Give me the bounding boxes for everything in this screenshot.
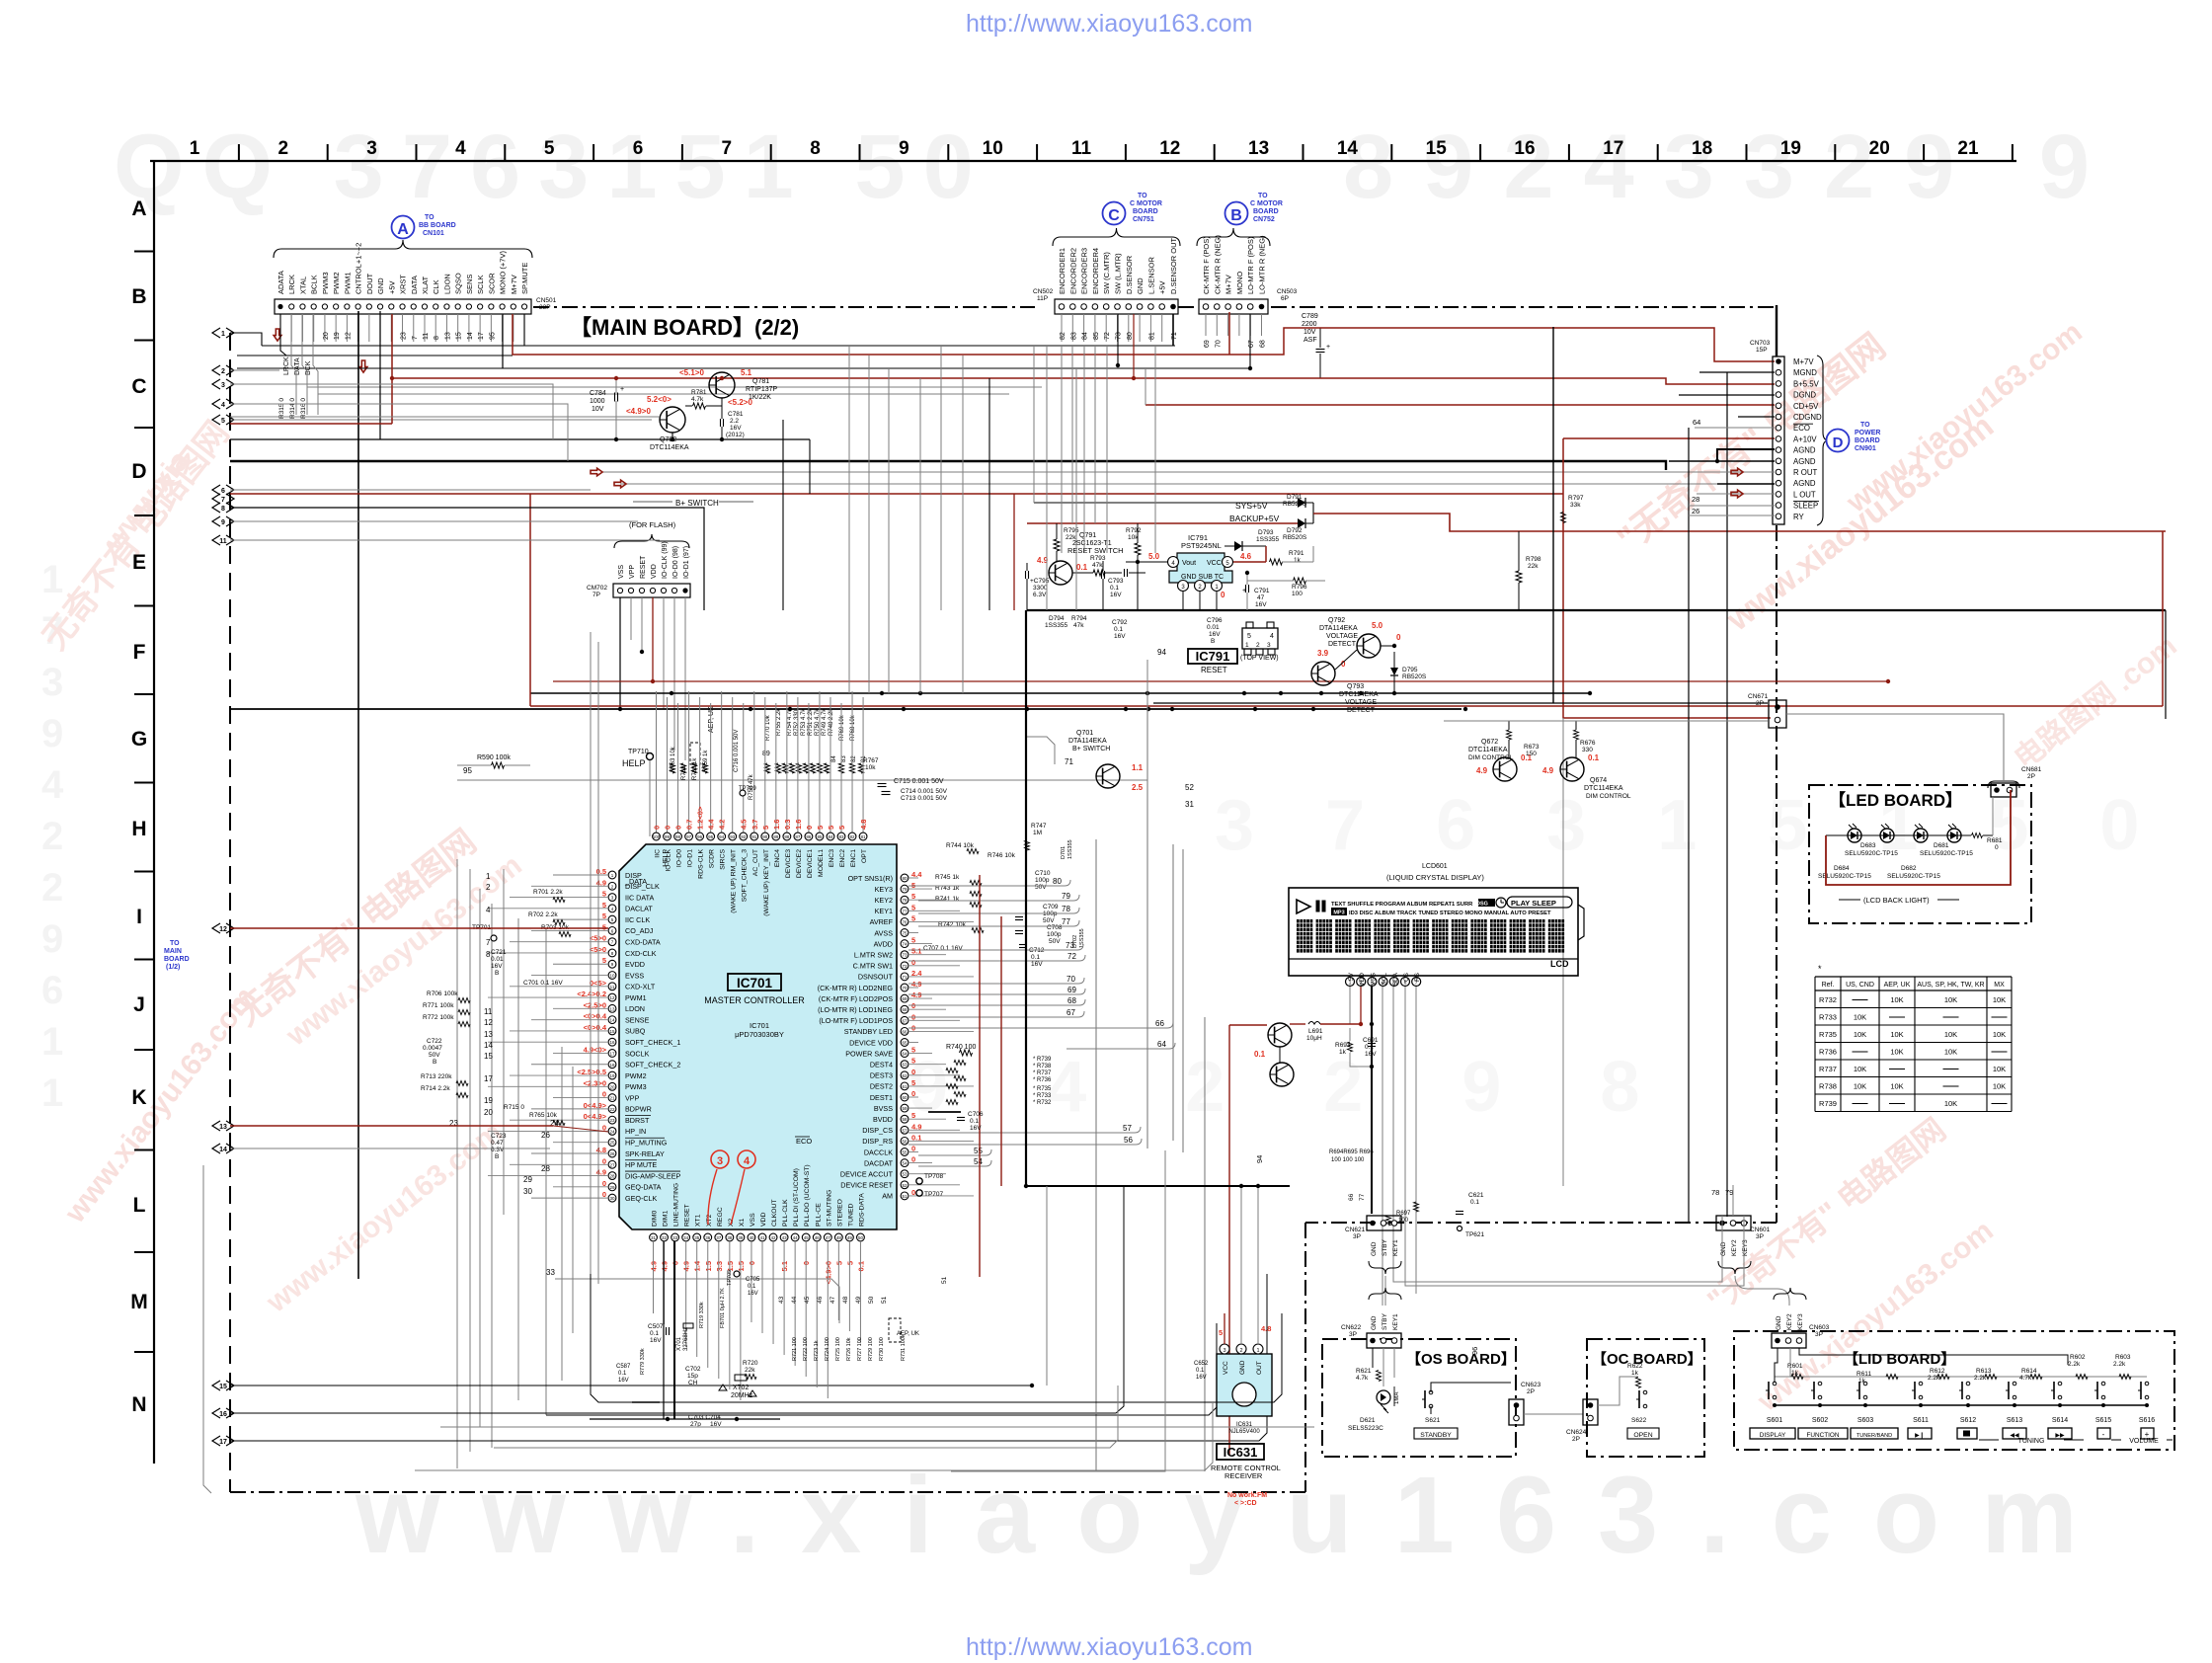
- svg-text:BOARD: BOARD: [1253, 208, 1279, 215]
- svg-text:22: 22: [609, 1107, 615, 1112]
- svg-text:4.8: 4.8: [859, 820, 868, 830]
- svg-text:R792: R792: [1126, 527, 1142, 534]
- svg-text:16V: 16V: [1110, 592, 1122, 598]
- svg-text:41: 41: [759, 1235, 765, 1240]
- svg-text:3300: 3300: [1033, 585, 1048, 592]
- svg-text:MODEL1: MODEL1: [818, 849, 825, 877]
- svg-text:R601: R601: [1787, 1363, 1803, 1370]
- svg-text:67: 67: [1248, 340, 1255, 348]
- connector CN501 23P to BB board: [274, 214, 557, 419]
- diode D793 1SS355: [1224, 529, 1280, 551]
- svg-text:17: 17: [1603, 138, 1623, 159]
- svg-text:B: B: [1230, 207, 1242, 224]
- svg-text:1: 1: [1245, 642, 1249, 649]
- svg-text:CN601: CN601: [1750, 1227, 1771, 1233]
- svg-text:PST9245NL: PST9245NL: [1181, 541, 1222, 550]
- svg-text:A+10V: A+10V: [1793, 435, 1817, 443]
- svg-text:R715 0: R715 0: [504, 1104, 524, 1111]
- svg-text:B: B: [433, 1059, 436, 1066]
- transistor Q792 voltage detect: [1319, 617, 1401, 658]
- border frame ruler: [130, 138, 2016, 1464]
- svg-text:1: 1: [221, 331, 225, 338]
- svg-text:KEY1: KEY1: [1392, 1313, 1399, 1330]
- capacitor C789: [1302, 313, 1330, 378]
- svg-text:* R732: * R732: [1033, 1100, 1052, 1106]
- svg-text:SOFT_CHECK_1: SOFT_CHECK_1: [625, 1038, 680, 1047]
- svg-text:R767: R767: [863, 757, 879, 764]
- svg-text:FUNCTION: FUNCTION: [1806, 1432, 1839, 1439]
- svg-text:10K: 10K: [1854, 1013, 1866, 1022]
- svg-text:EVSS: EVSS: [625, 971, 644, 980]
- svg-text:STBY: STBY: [1382, 1312, 1388, 1330]
- svg-text:1: 1: [41, 1020, 63, 1064]
- svg-text:B: B: [131, 285, 146, 308]
- svg-text:2P: 2P: [1527, 1388, 1535, 1395]
- svg-text:TP710: TP710: [628, 749, 649, 755]
- svg-text:31: 31: [651, 1235, 657, 1240]
- svg-text:13: 13: [484, 1030, 493, 1039]
- svg-text:23P: 23P: [539, 304, 551, 311]
- svg-text:C721: C721: [491, 949, 507, 956]
- svg-text:ECO: ECO: [1793, 424, 1810, 433]
- svg-text:R611: R611: [1856, 1371, 1871, 1378]
- svg-text:OPEN: OPEN: [1633, 1432, 1652, 1439]
- svg-text:89: 89: [773, 834, 779, 839]
- svg-text:50: 50: [858, 1235, 864, 1240]
- svg-text:80: 80: [902, 876, 908, 881]
- red arrows mid: [591, 468, 626, 488]
- svg-text:IIC: IIC: [655, 849, 662, 858]
- svg-text:B+ SWITCH: B+ SWITCH: [675, 499, 719, 508]
- svg-text:50V: 50V: [1035, 884, 1047, 891]
- transistor Q674 dim control: [1444, 721, 1768, 800]
- svg-text:10K: 10K: [1854, 1030, 1866, 1039]
- svg-text:4.5: 4.5: [740, 820, 749, 830]
- svg-text:1: 1: [190, 138, 200, 159]
- svg-text:R722 100: R722 100: [803, 1337, 809, 1361]
- svg-text:16: 16: [219, 1411, 227, 1418]
- svg-text:40: 40: [749, 1235, 754, 1240]
- svg-text:R797: R797: [1568, 495, 1584, 502]
- svg-text:【OC BOARD】: 【OC BOARD】: [1592, 1350, 1702, 1368]
- svg-text:22k: 22k: [745, 1367, 755, 1374]
- svg-text:LO-MTR F (POS): LO-MTR F (POS): [1246, 236, 1255, 294]
- svg-text:16V: 16V: [1196, 1375, 1207, 1381]
- svg-text:9: 9: [41, 712, 63, 755]
- svg-text:DISP_CLK: DISP_CLK: [625, 882, 660, 891]
- svg-text:L691: L691: [1308, 1028, 1323, 1035]
- svg-text:SENS: SENS: [465, 275, 474, 294]
- svg-text:10: 10: [609, 974, 615, 979]
- svg-text:SDA: SDA: [1392, 972, 1399, 986]
- svg-text:1k: 1k: [1294, 557, 1302, 564]
- svg-text:77: 77: [1359, 1193, 1366, 1201]
- svg-text:RESET: RESET: [684, 1204, 691, 1227]
- svg-text:R723 1k: R723 1k: [814, 1340, 820, 1361]
- svg-text:RDS-CLK: RDS-CLK: [698, 849, 705, 879]
- svg-text:3: 3: [717, 1155, 723, 1167]
- svg-text:DEVICE ACCUT: DEVICE ACCUT: [840, 1170, 894, 1179]
- wire CD+5V (dark red): [1145, 404, 1775, 406]
- svg-text:ENCORDER3: ENCORDER3: [1080, 248, 1089, 294]
- svg-text:ENC1: ENC1: [850, 849, 857, 867]
- svg-text:SW (L.MTR): SW (L.MTR): [1114, 253, 1123, 294]
- svg-text:RECEIVER: RECEIVER: [1224, 1471, 1263, 1480]
- svg-text:3P: 3P: [1815, 1331, 1823, 1338]
- svg-text:E: E: [132, 551, 146, 574]
- svg-text:SQSO: SQSO: [454, 273, 463, 294]
- svg-text:2.2k: 2.2k: [2113, 1361, 2126, 1368]
- svg-text:MGND: MGND: [1793, 368, 1817, 377]
- svg-text:AUS, SP, HK, TW, KR: AUS, SP, HK, TW, KR: [1917, 982, 1984, 989]
- svg-text:G: G: [131, 728, 147, 751]
- svg-text:15: 15: [609, 1029, 615, 1034]
- svg-text:DTA114EKA: DTA114EKA: [1068, 738, 1107, 745]
- svg-text:STEREO: STEREO: [836, 1199, 843, 1227]
- svg-text:16V: 16V: [1031, 961, 1043, 968]
- svg-text:GND: GND: [1239, 1360, 1246, 1375]
- svg-text:6.3V: 6.3V: [491, 1147, 505, 1153]
- svg-text:IO-CLK (99): IO-CLK (99): [662, 541, 669, 579]
- svg-text:13: 13: [609, 1006, 615, 1011]
- svg-text:68: 68: [1260, 340, 1267, 348]
- LED D621 / resistor R621 / switch S621: [1348, 1348, 1511, 1439]
- svg-text:5.1: 5.1: [741, 368, 752, 377]
- svg-text:72: 72: [1104, 332, 1111, 340]
- svg-text:KEY2: KEY2: [1731, 1239, 1738, 1256]
- svg-text:IO-D0: IO-D0: [676, 849, 683, 867]
- svg-text:DEVICE1: DEVICE1: [807, 849, 814, 878]
- svg-text:6: 6: [221, 488, 225, 495]
- svg-text:S621: S621: [1425, 1417, 1441, 1424]
- svg-text:0.1: 0.1: [748, 1284, 756, 1290]
- svg-text:CH: CH: [688, 1380, 698, 1386]
- svg-text:IIC CLK: IIC CLK: [625, 915, 650, 924]
- svg-text:ENC3: ENC3: [829, 849, 835, 867]
- svg-text:4.7k: 4.7k: [1356, 1375, 1369, 1382]
- svg-text:6.3V: 6.3V: [1033, 592, 1047, 598]
- red circled 3 and 4 callouts: [708, 1150, 755, 1225]
- svg-text:70: 70: [1215, 340, 1222, 348]
- wires into CN703: [1669, 372, 1775, 515]
- capacitor C793: [1102, 561, 1124, 610]
- svg-text:66: 66: [902, 1029, 908, 1034]
- svg-text:C707 0.1 16V: C707 0.1 16V: [923, 945, 963, 952]
- svg-text:STBY: STBY: [1382, 1238, 1388, 1256]
- svg-text:M+7V: M+7V: [1224, 275, 1233, 294]
- svg-text:LO-MTR R (NEG): LO-MTR R (NEG): [1258, 235, 1267, 294]
- svg-text:5: 5: [1219, 1328, 1223, 1337]
- svg-text:5: 5: [1247, 633, 1251, 640]
- svg-text:78: 78: [1062, 905, 1070, 913]
- svg-text:BDRST: BDRST: [625, 1116, 650, 1125]
- svg-text:CN502: CN502: [1033, 288, 1054, 295]
- svg-text:M: M: [130, 1291, 148, 1313]
- svg-text:19: 19: [334, 332, 341, 340]
- svg-text:D681: D681: [1934, 842, 1949, 849]
- svg-text:DEST1: DEST1: [870, 1093, 893, 1102]
- svg-text:GND: GND: [1776, 1315, 1782, 1330]
- svg-text:2P: 2P: [2027, 773, 2035, 780]
- svg-text:10μH: 10μH: [1306, 1035, 1322, 1042]
- wire +5V net (dark red): [230, 314, 1775, 424]
- svg-text:S615: S615: [2095, 1417, 2111, 1424]
- svg-text:4.8: 4.8: [1261, 1324, 1271, 1333]
- svg-text:0.1: 0.1: [1196, 1368, 1205, 1374]
- svg-text:94: 94: [719, 834, 725, 839]
- svg-text:81: 81: [1148, 332, 1155, 340]
- IC701 left pins 1-30: [577, 867, 680, 1203]
- svg-text:C MOTOR: C MOTOR: [1250, 200, 1283, 207]
- svg-text:BB BOARD: BB BOARD: [419, 222, 456, 229]
- svg-text:C709: C709: [1043, 904, 1059, 911]
- svg-text:95: 95: [708, 834, 714, 839]
- svg-text:R755 2.2k: R755 2.2k: [776, 708, 782, 736]
- wires below LCD: [1350, 987, 1416, 1272]
- svg-text:HP_MUTING: HP_MUTING: [625, 1139, 668, 1148]
- svg-text:52: 52: [1185, 783, 1194, 792]
- svg-text:10K: 10K: [1890, 1082, 1903, 1091]
- svg-text:8: 8: [810, 138, 821, 159]
- svg-text:CD+5V: CD+5V: [1793, 402, 1819, 411]
- svg-text:ENCORDER2: ENCORDER2: [1068, 248, 1077, 294]
- svg-text:23: 23: [401, 332, 408, 340]
- svg-text:QQ 3763151 50: QQ 3763151 50: [114, 117, 991, 217]
- svg-text:78: 78: [1711, 1188, 1719, 1197]
- svg-text:R612: R612: [1930, 1368, 1945, 1375]
- svg-text:15P: 15P: [1756, 347, 1768, 354]
- svg-text:73: 73: [1116, 332, 1123, 340]
- svg-text:MP3: MP3: [1333, 911, 1344, 916]
- svg-text:C789: C789: [1302, 313, 1318, 320]
- svg-text:R724 100: R724 100: [825, 1337, 830, 1361]
- svg-text:R738: R738: [1819, 1082, 1837, 1091]
- labels 66 77 78 79 64 94 96 wires: [1255, 1155, 1733, 1355]
- svg-text:79: 79: [1725, 1188, 1733, 1197]
- svg-text:48: 48: [842, 1296, 849, 1304]
- wire horizontals rows D: [230, 333, 704, 610]
- svg-text:69: 69: [1204, 340, 1211, 348]
- wire 13 dark red: [230, 1126, 608, 1132]
- svg-text:C716 0.001 50V: C716 0.001 50V: [734, 730, 740, 772]
- svg-text:【OS BOARD】: 【OS BOARD】: [1406, 1350, 1516, 1368]
- capacitor C784: [230, 376, 724, 441]
- wire CN502 GND/MONO drops: [1116, 314, 1252, 370]
- svg-text:5: 5: [837, 826, 846, 830]
- svg-text:2200: 2200: [1302, 321, 1317, 328]
- svg-text:89243329 9: 89243329 9: [1343, 117, 2119, 217]
- svg-text:HP_IN: HP_IN: [625, 1127, 646, 1136]
- svg-text:+: +: [1326, 344, 1330, 351]
- svg-text:SELU5920C-TP15: SELU5920C-TP15: [1845, 850, 1898, 857]
- svg-text:R748 2.2k: R748 2.2k: [829, 708, 834, 736]
- svg-text:CN603: CN603: [1809, 1324, 1830, 1331]
- svg-text:AC_CUT: AC_CUT: [752, 849, 759, 876]
- svg-text:ASF: ASF: [1303, 337, 1317, 344]
- svg-text:【LED BOARD】: 【LED BOARD】: [1829, 790, 1962, 810]
- LCD601 liquid crystal display: [1289, 863, 1584, 987]
- svg-text:DISP_CS: DISP_CS: [862, 1126, 893, 1135]
- svg-text:48: 48: [836, 1235, 842, 1240]
- svg-text:XT2: XT2: [706, 1214, 713, 1227]
- svg-text:C715 0.001 50V: C715 0.001 50V: [894, 778, 944, 785]
- svg-text:IC701: IC701: [737, 976, 773, 990]
- svg-text:R752 330: R752 330: [794, 709, 800, 736]
- svg-text:19: 19: [609, 1073, 615, 1078]
- svg-text:43: 43: [778, 1296, 785, 1304]
- svg-text:7: 7: [412, 336, 419, 340]
- svg-text:62: 62: [902, 1073, 908, 1078]
- svg-text:R742 10k: R742 10k: [938, 921, 967, 928]
- LED board red wire: [1826, 790, 2011, 885]
- LED board outline: [1809, 785, 2031, 923]
- svg-text:C793: C793: [1108, 578, 1124, 585]
- svg-text:S603: S603: [1857, 1417, 1873, 1424]
- svg-text:47: 47: [826, 1235, 831, 1240]
- svg-text:84: 84: [1082, 332, 1089, 340]
- svg-text:70: 70: [1066, 975, 1075, 984]
- capacitor C795: [1026, 563, 1050, 610]
- svg-text:56: 56: [902, 1139, 908, 1144]
- svg-text:9: 9: [899, 138, 909, 159]
- svg-text:3P: 3P: [1349, 1331, 1357, 1338]
- svg-text:SP.MUTE: SP.MUTE: [520, 263, 529, 294]
- test points TP708 TP707: [916, 1173, 944, 1198]
- svg-text:22k: 22k: [1066, 534, 1076, 541]
- svg-text:12: 12: [609, 995, 615, 1000]
- resistor R792 10k: [1126, 523, 1148, 610]
- svg-text:IC791: IC791: [1196, 649, 1230, 664]
- wire 14: [230, 1148, 550, 1149]
- svg-text:< >:CD: < >:CD: [1234, 1500, 1257, 1507]
- svg-text:72: 72: [1067, 952, 1076, 961]
- svg-text:46: 46: [817, 1296, 824, 1304]
- svg-text:73: 73: [902, 953, 908, 958]
- svg-text:5V: 5V: [1348, 972, 1355, 981]
- svg-text:64: 64: [1693, 418, 1700, 427]
- svg-text:BVSS: BVSS: [874, 1104, 893, 1113]
- svg-text:0: 0: [653, 826, 662, 830]
- svg-text:B: B: [495, 1153, 499, 1160]
- labels 52 51 right of Q701: [1185, 783, 1194, 809]
- svg-text:SPK-RELAY: SPK-RELAY: [625, 1149, 665, 1158]
- transistor Q781: [679, 368, 777, 401]
- svg-text:REGC: REGC: [717, 1207, 724, 1227]
- svg-text:TP708: TP708: [924, 1173, 944, 1180]
- svg-text:R769 10k: R769 10k: [839, 714, 845, 741]
- diodes D794 R794: [1045, 615, 1087, 629]
- svg-text:TO: TO: [1138, 193, 1147, 199]
- svg-text:VSS: VSS: [618, 565, 625, 579]
- svg-text:3: 3: [366, 138, 377, 159]
- svg-text:CN624: CN624: [1566, 1429, 1587, 1436]
- svg-text:87: 87: [795, 834, 801, 839]
- svg-text:12: 12: [219, 926, 227, 933]
- svg-text:28: 28: [609, 1174, 615, 1179]
- connector CN623 2P: [1509, 1382, 1583, 1425]
- svg-text:▶❙: ▶❙: [1915, 1432, 1925, 1439]
- svg-text:RESET SWITCH: RESET SWITCH: [1067, 546, 1124, 555]
- svg-text:10K: 10K: [1944, 1030, 1957, 1039]
- svg-text:20: 20: [609, 1084, 615, 1089]
- svg-text:S612: S612: [1960, 1417, 1976, 1424]
- IC IC791 PST9245NL: [1137, 533, 1266, 610]
- wire M+7V net (dark red): [513, 312, 1775, 361]
- svg-text:TUNED: TUNED: [847, 1203, 854, 1227]
- svg-text:1.1: 1.1: [1132, 763, 1144, 772]
- svg-text:R753 4.7k: R753 4.7k: [801, 708, 807, 736]
- svg-text:IO-CLK: IO-CLK: [666, 849, 672, 872]
- test point TP621 / capacitor C621: [1456, 1192, 1485, 1238]
- svg-text:Ref.: Ref.: [1822, 982, 1835, 989]
- svg-text:GND: GND: [1371, 1315, 1378, 1330]
- svg-text:* R735: * R735: [1033, 1086, 1052, 1092]
- svg-text:* R736: * R736: [1033, 1077, 1052, 1083]
- svg-text:66: 66: [1348, 1193, 1355, 1201]
- svg-text:50V: 50V: [1049, 938, 1061, 945]
- svg-text:H: H: [131, 818, 146, 840]
- connector CN703 15P to power board: [1750, 340, 1880, 525]
- svg-text:ENC4: ENC4: [774, 849, 781, 867]
- svg-text:VCC: VCC: [1207, 560, 1222, 567]
- svg-text:SOFT_CHECK_3: SOFT_CHECK_3: [742, 849, 749, 902]
- svg-text:10k: 10k: [865, 764, 876, 771]
- svg-text:R603: R603: [2115, 1354, 2131, 1361]
- svg-text:CXD-CLK: CXD-CLK: [625, 949, 657, 958]
- svg-text:20: 20: [1869, 138, 1890, 159]
- svg-text:BOARD: BOARD: [1133, 208, 1158, 215]
- svg-text:35: 35: [694, 1235, 700, 1240]
- svg-text:11P: 11P: [1037, 295, 1048, 302]
- svg-text:SCL: SCL: [1382, 973, 1388, 986]
- svg-text:MONO (+7V): MONO (+7V): [499, 251, 508, 294]
- svg-text:83: 83: [841, 755, 847, 762]
- svg-text:1000: 1000: [590, 398, 605, 405]
- svg-text:R758 47k: R758 47k: [749, 773, 754, 800]
- svg-text:*: *: [1818, 964, 1822, 974]
- svg-text:RDS-DATA: RDS-DATA: [858, 1193, 865, 1227]
- svg-text:10K: 10K: [1854, 1065, 1866, 1073]
- svg-text:1k: 1k: [1858, 1378, 1866, 1385]
- svg-text:STANDBY: STANDBY: [1420, 1432, 1452, 1439]
- svg-text:RB520S: RB520S: [1402, 673, 1427, 680]
- svg-text:R727 100: R727 100: [857, 1337, 863, 1361]
- svg-text:R737: R737: [1819, 1065, 1837, 1073]
- svg-text:85: 85: [817, 834, 823, 839]
- svg-text:10: 10: [983, 138, 1003, 159]
- svg-text:VSS: VSS: [1370, 972, 1377, 986]
- svg-text:DTC114EKA: DTC114EKA: [1584, 785, 1623, 792]
- svg-text:TO: TO: [425, 214, 434, 221]
- svg-text:Q792: Q792: [1328, 617, 1345, 624]
- transistor Q791 reset switch: [1037, 532, 1145, 585]
- wire 15 16 17: [230, 1186, 1267, 1441]
- svg-text:17: 17: [478, 332, 485, 340]
- svg-text:65: 65: [902, 1041, 908, 1046]
- svg-text:(CK-MTR R) LOD2NEG: (CK-MTR R) LOD2NEG: [818, 984, 894, 992]
- svg-text:100: 100: [1292, 591, 1303, 597]
- svg-text:http://www.xiaoyu163.com: http://www.xiaoyu163.com: [966, 1633, 1252, 1661]
- connector CM702 7P for flash: [587, 520, 690, 760]
- svg-text:31: 31: [1185, 800, 1194, 809]
- svg-text:D.SENSOR: D.SENSOR: [1125, 255, 1134, 294]
- svg-text:16V: 16V: [1255, 601, 1267, 608]
- svg-text:5: 5: [816, 826, 825, 830]
- svg-text:16V: 16V: [1114, 633, 1126, 640]
- svg-text:16V: 16V: [970, 1125, 982, 1132]
- svg-text:SCOR: SCOR: [487, 273, 496, 294]
- svg-text:10K: 10K: [1993, 995, 2006, 1004]
